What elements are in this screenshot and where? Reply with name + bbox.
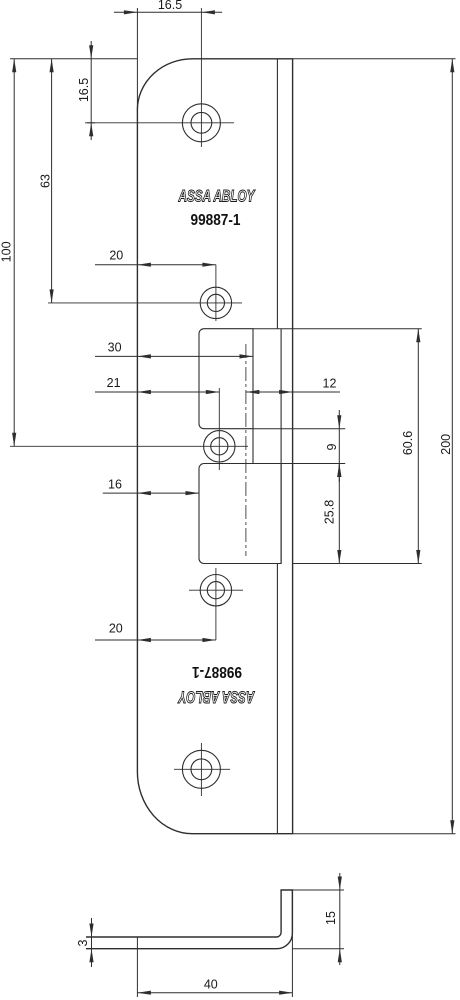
lower cutout top extension xyxy=(281,463,345,465)
top edge extension line left xyxy=(10,58,137,60)
svg-text:20: 20 xyxy=(109,622,123,636)
dimension 200 xyxy=(439,59,454,834)
svg-text:99887-1: 99887-1 xyxy=(191,212,241,229)
fold line lower section xyxy=(276,564,278,834)
dimension 16 xyxy=(103,478,199,496)
dimension 63 xyxy=(39,59,54,303)
dimension 16.5 (top hole from top edge) xyxy=(77,41,95,140)
fold line middle section xyxy=(280,329,282,564)
svg-text:30: 30 xyxy=(108,341,122,355)
screw hole H1 (top) xyxy=(85,8,234,147)
dimension 20 (lower) xyxy=(95,622,216,643)
lower cutout bottom extension xyxy=(293,563,422,565)
side view leg top extension xyxy=(292,889,344,891)
svg-text:12: 12 xyxy=(323,377,337,391)
lower latch cutout xyxy=(199,464,281,564)
dimension 20 (upper) xyxy=(95,249,216,267)
top edge extension line right xyxy=(293,58,456,60)
side view left extension xyxy=(136,937,138,997)
side view strip bottom extension xyxy=(292,948,344,950)
text ASSA ABLOY (top) xyxy=(178,187,256,205)
screw hole H5 (bottom) xyxy=(174,743,230,796)
bottom edge extension line xyxy=(293,833,456,835)
svg-text:16: 16 xyxy=(108,478,122,492)
text ASSA ABLOY (bottom, rotated) xyxy=(177,687,255,705)
text 99887-1 (bottom, rotated) xyxy=(192,663,242,680)
svg-text:16.5: 16.5 xyxy=(77,78,91,102)
dimension 40 (width) xyxy=(137,978,292,995)
svg-text:15: 15 xyxy=(324,911,338,925)
screw hole H2 xyxy=(48,265,242,321)
dimension 21 xyxy=(95,376,219,394)
svg-text:21: 21 xyxy=(107,376,121,390)
dimension 25.8 xyxy=(323,464,342,564)
upper cutout right edge extension xyxy=(252,429,254,464)
svg-text:40: 40 xyxy=(204,978,218,992)
dimension 9 xyxy=(325,410,341,482)
dimension 15 (lip height) xyxy=(324,873,342,965)
screw hole H3 (middle) xyxy=(10,388,248,470)
upper cutout bottom extension xyxy=(253,428,345,430)
svg-text:100: 100 xyxy=(0,241,14,262)
dimension 3 (thickness) xyxy=(76,918,93,967)
text 99887-1 (top) xyxy=(191,212,241,229)
plate outline (face view) xyxy=(137,59,292,834)
svg-text:9: 9 xyxy=(325,443,339,450)
dimension 60.6 xyxy=(401,329,421,564)
upper cutout top extension xyxy=(253,328,422,330)
side view L-profile xyxy=(86,890,292,949)
svg-text:16.5: 16.5 xyxy=(158,0,182,12)
fold line upper section xyxy=(276,59,278,329)
svg-text:200: 200 xyxy=(439,434,453,455)
left edge top extension xyxy=(136,8,138,111)
svg-text:60.6: 60.6 xyxy=(401,431,415,455)
svg-text:ASSA ABLOY: ASSA ABLOY xyxy=(177,687,255,705)
upper latch cutout xyxy=(199,329,253,429)
svg-text:99887-1: 99887-1 xyxy=(192,663,242,680)
svg-text:ASSA ABLOY: ASSA ABLOY xyxy=(178,187,256,205)
svg-text:20: 20 xyxy=(109,249,123,263)
svg-text:25.8: 25.8 xyxy=(323,500,337,524)
screw hole H4 xyxy=(189,568,243,640)
side view right extension xyxy=(291,890,293,997)
svg-text:3: 3 xyxy=(76,939,90,946)
dimension 16.5 (top hole from left edge) xyxy=(114,0,222,14)
dimension 100 xyxy=(0,59,16,447)
svg-text:63: 63 xyxy=(39,174,53,188)
dimension 12 xyxy=(246,377,340,395)
cutout center line xyxy=(245,344,247,556)
dimension 30 xyxy=(95,341,253,359)
